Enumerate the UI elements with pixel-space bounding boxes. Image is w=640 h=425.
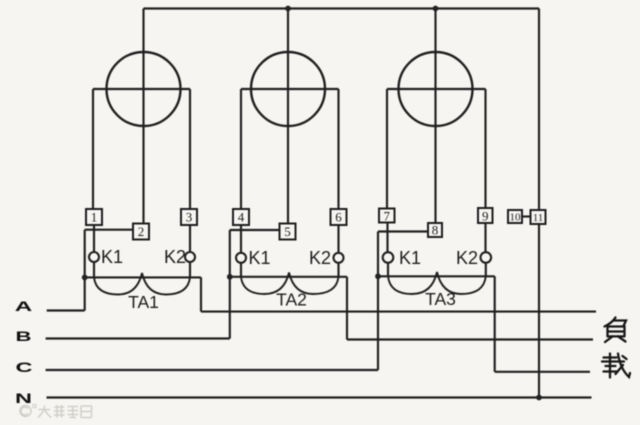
- wire: link between terminal 10 and terminal 11: [523, 215, 532, 217]
- load label character FU (负): [605, 318, 627, 343]
- svg-text:A: A: [15, 298, 33, 314]
- terminal box 6: [331, 209, 347, 225]
- wire: bus to meter element 2 center, down to terminal 5: [287, 9, 289, 224]
- svg-text:B: B: [16, 328, 32, 344]
- svg-text:TA2: TA2: [276, 290, 307, 310]
- terminal box 9: [478, 208, 493, 223]
- terminal box 2: [133, 224, 149, 240]
- svg-text:5: 5: [284, 224, 291, 239]
- wire: bus to meter element 1 center, down to terminal 2: [142, 9, 144, 224]
- wire: bus to meter element 3 center, down to terminal 8: [434, 9, 436, 224]
- wire: TA3 primary conductor: [378, 275, 495, 277]
- wire: K1 lead of TA3: [387, 263, 389, 276]
- wire: phase B incoming: [46, 337, 230, 339]
- wire: phase B to load: [347, 338, 593, 340]
- wire: terminal 11 down to neutral line N: [538, 224, 540, 398]
- terminal box 4: [233, 209, 249, 225]
- junction dot: phase B tap at TA2 primary: [227, 274, 233, 280]
- K1 terminal circle of TA3: [383, 252, 394, 263]
- junction dot: bus / element 3: [433, 6, 439, 12]
- wire: terminal 7 down to K1 of TA3: [386, 222, 388, 252]
- watermark character 3: [68, 407, 79, 418]
- junction dot: neutral riser on N line: [536, 395, 542, 401]
- wire: K2 lead of TA1: [189, 262, 191, 277]
- CT TA3 secondary winding arcs: [388, 272, 486, 294]
- CT TA2 secondary winding arcs: [241, 273, 339, 295]
- watermark character 4: [81, 406, 92, 418]
- meter element 1 coil circle: [107, 52, 181, 126]
- wire: TA1 primary down to A continuation: [200, 277, 202, 311]
- terminal box 7: [379, 209, 395, 223]
- meter element 3 coil circle: [399, 52, 473, 126]
- terminal box 10: [508, 210, 522, 223]
- wire: TA2 primary conductor: [230, 276, 347, 278]
- wire: element 1 horizontal crossing bar: [93, 88, 190, 90]
- svg-text:K2: K2: [456, 248, 478, 268]
- wire: phase A incoming: [47, 309, 85, 311]
- watermark character 2: [54, 405, 65, 418]
- svg-text:K1: K1: [101, 247, 123, 267]
- junction dot: bus / element 2: [285, 6, 291, 12]
- watermark character 1: [38, 406, 51, 418]
- wire: voltage tap stub to terminal 2: [85, 229, 133, 231]
- terminal box 11: [531, 210, 546, 224]
- svg-text:K1: K1: [399, 248, 421, 268]
- terminal box 5: [280, 224, 296, 240]
- wire: K2 lead of TA3: [485, 264, 487, 277]
- wire: phase C incoming: [46, 369, 378, 371]
- svg-text:3: 3: [186, 210, 193, 225]
- wire: K1 lead of TA2: [240, 263, 242, 277]
- svg-text:8: 8: [432, 223, 439, 238]
- meter element 2 coil circle: [251, 52, 325, 126]
- wire: terminal 9 down to K2 of TA3: [484, 223, 486, 253]
- svg-text:9: 9: [482, 209, 489, 224]
- svg-text:TA3: TA3: [425, 289, 456, 309]
- svg-text:2: 2: [138, 224, 145, 239]
- junction dot: phase C tap at TA3 primary: [375, 273, 381, 279]
- wire: neutral line N: [47, 396, 592, 398]
- svg-text:6: 6: [335, 210, 342, 225]
- wire: phase C riser: [377, 232, 379, 371]
- wire: element 2 left drop to terminal 4: [240, 89, 242, 209]
- svg-text:TA1: TA1: [128, 292, 159, 312]
- K2 terminal circle of TA2: [334, 253, 344, 263]
- svg-text:C: C: [16, 359, 33, 375]
- svg-text:N: N: [15, 390, 32, 406]
- wire: terminal 4 down to K1 of TA2: [240, 225, 242, 253]
- svg-text:K2: K2: [309, 248, 331, 268]
- wire: element 2 horizontal crossing bar: [241, 88, 339, 90]
- terminal box 3: [181, 209, 197, 225]
- wire: terminal 1 down to K1 of TA1: [93, 225, 95, 252]
- svg-text:11: 11: [533, 212, 544, 224]
- CT TA1 secondary winding arcs: [94, 273, 190, 295]
- top bus wire: [144, 7, 540, 9]
- wire: TA3 primary down to C continuation: [494, 276, 496, 372]
- wire: element 3 horizontal crossing bar: [387, 88, 486, 90]
- K1 terminal circle of TA1: [89, 252, 99, 262]
- wire: K2 lead of TA2: [337, 263, 339, 277]
- wire: TA2 primary down to B continuation: [346, 277, 348, 340]
- svg-text:K1: K1: [249, 248, 271, 268]
- wire: element 1 right drop to terminal 3: [189, 89, 191, 209]
- svg-text:10: 10: [510, 212, 522, 224]
- terminal box 1: [86, 209, 102, 225]
- wire: element 2 right drop to terminal 6: [337, 89, 339, 209]
- junction dot: phase A tap at TA1 primary: [82, 275, 88, 281]
- wire: TA1 primary conductor: [85, 276, 201, 278]
- wire: phase A riser (tap to primary and down to A line): [84, 230, 86, 311]
- wire: bus right end down to terminal 11: [538, 9, 540, 211]
- wire: voltage tap stub to terminal 8: [378, 230, 428, 232]
- svg-text:4: 4: [238, 210, 245, 225]
- wire: phase B riser: [229, 230, 231, 339]
- wire: K1 lead of TA1: [93, 262, 95, 277]
- wire: voltage tap stub to terminal 5: [230, 229, 280, 231]
- svg-text:K2: K2: [164, 247, 186, 267]
- wire: phase C to load: [495, 371, 590, 373]
- wire: element 3 left drop to terminal 7: [386, 89, 388, 209]
- wire: phase A to load: [201, 311, 596, 313]
- K1 terminal circle of TA2: [236, 253, 246, 263]
- terminal box 8: [428, 223, 442, 237]
- K2 terminal circle of TA1: [185, 252, 195, 262]
- watermark icon: [20, 406, 31, 417]
- wire: element 3 right drop to terminal 9: [484, 89, 486, 208]
- wire: terminal 6 down to K2 of TA2: [337, 225, 339, 253]
- K2 terminal circle of TA3: [481, 252, 492, 263]
- wire: element 1 left drop to terminal 1: [92, 89, 94, 209]
- load label character ZAI (载): [602, 354, 630, 378]
- svg-text:1: 1: [91, 210, 98, 225]
- wire: terminal 3 down to K2 of TA1: [189, 225, 191, 252]
- svg-text:7: 7: [383, 209, 390, 224]
